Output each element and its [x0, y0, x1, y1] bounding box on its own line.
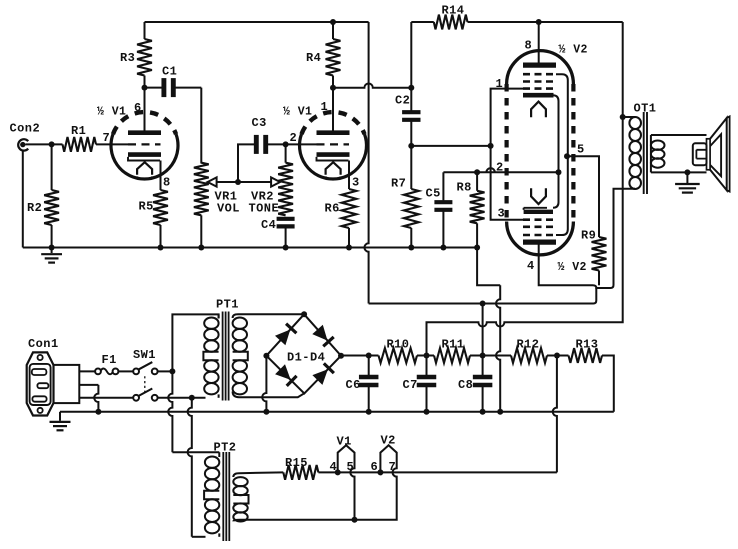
svg-text:F1: F1 [102, 353, 117, 367]
node C7 top / OT1 return [424, 353, 430, 359]
node bridge right vertex [338, 353, 344, 359]
resistor R7 [391, 177, 419, 248]
node R4 top rail junction [330, 19, 336, 25]
svg-text:1: 1 [321, 100, 329, 114]
tube V2 envelope (both halves) [507, 44, 588, 275]
svg-text:6: 6 [134, 101, 142, 115]
speaker frame [707, 139, 711, 170]
node ground R7 [408, 245, 414, 251]
svg-text:R1: R1 [71, 124, 86, 138]
wire Con2 shell to ground rail [22, 150, 24, 247]
node bridge minus ground [263, 409, 269, 415]
node ground C6 [366, 409, 372, 415]
wire R12-R13 [547, 355, 569, 357]
svg-text:5: 5 [577, 143, 585, 157]
wire F1 to SW1 [118, 370, 133, 372]
capacitor C8 [458, 356, 492, 412]
capacitor C6 [346, 356, 379, 412]
svg-text:2: 2 [290, 131, 298, 145]
svg-text:OT1: OT1 [634, 102, 657, 116]
svg-text:V1: V1 [337, 435, 352, 449]
wire R13 right to ground rail [602, 356, 614, 412]
svg-text:R8: R8 [457, 181, 472, 195]
svg-text:C2: C2 [395, 94, 410, 108]
wire V1b plate lead pin 1 [332, 88, 334, 131]
resistor R8 [457, 172, 485, 247]
node heater pin 4 [335, 469, 341, 475]
wire bridge minus to ground rail (hops secondary wire) [262, 356, 266, 412]
svg-text:3: 3 [498, 207, 506, 221]
svg-text:C8: C8 [458, 378, 473, 392]
svg-text:3: 3 [352, 176, 360, 190]
svg-text:Con2: Con2 [10, 122, 41, 136]
wire top rail left (R3/R4 supply) [145, 21, 369, 23]
svg-text:2: 2 [496, 161, 504, 175]
node heater return pin 5 [352, 517, 358, 523]
tube V2 upper half grids [523, 74, 556, 88]
transformer PT2 primary winding [204, 441, 236, 537]
resistor R12 [511, 338, 547, 363]
bridge rectifier D1-D4 [266, 314, 341, 393]
tube V2 screen hook upper [556, 74, 568, 235]
heater V2 tent pins 6,7 [355, 434, 397, 520]
node input junction (R2 top) [49, 141, 55, 147]
resistor R6 [325, 161, 357, 248]
svg-text:C7: C7 [403, 378, 418, 392]
svg-text:4: 4 [527, 259, 535, 273]
wire live down to PT2 primary top (hops neutral and ground) [168, 371, 219, 457]
wire ground staircase to PSU ground (hops lines A,B,B+) [477, 248, 500, 412]
speaker cone [710, 116, 730, 191]
svg-text:R6: R6 [325, 202, 340, 216]
svg-text:8: 8 [163, 176, 171, 190]
wire ground rail 2 (PSU) [60, 411, 614, 413]
wire B+ rail [341, 355, 379, 357]
wire C1 to VR1 top [200, 88, 202, 164]
wire speaker bottom [651, 171, 707, 173]
wire V2 pin 5 screen to R9 [567, 143, 599, 238]
wire PT2 secondary top to R15 [233, 472, 283, 477]
node ground R6 [346, 245, 352, 251]
transformer OT1 primary winding [629, 102, 656, 190]
wire SW1 live to PT1 [158, 370, 173, 372]
node bridge left vertex [263, 353, 269, 359]
wire R11-R12 (hop ground staircase) [470, 355, 511, 357]
svg-text:R14: R14 [442, 4, 465, 18]
svg-text:½ V2: ½ V2 [558, 261, 587, 274]
node C3/VR2/grid junction pin 2 [283, 131, 298, 147]
node ground R2 [49, 245, 55, 251]
wire Con1 neutral out [79, 397, 133, 399]
wire V1b plate junction to C2 top (hop over supply drop) [333, 84, 411, 88]
transformer PT2 core [223, 452, 229, 541]
wire grid feed line to V2 pins 1,3 [411, 145, 490, 147]
node line A to C8 vertical [480, 301, 486, 356]
resistor R1 [63, 124, 97, 152]
tube V2 lower half cathode [524, 208, 553, 212]
switch SW1 (DPST) [133, 348, 158, 401]
node live junction [169, 368, 175, 374]
wire supply drop from top rail to line A (hops over plate wire and ground rail) [364, 22, 368, 304]
svg-text:R2: R2 [27, 201, 42, 215]
tube V2 upper half plate (pin 8) [523, 22, 556, 65]
node heater pin 6 [377, 469, 383, 475]
svg-text:R10: R10 [387, 338, 410, 352]
svg-text:7: 7 [389, 460, 397, 474]
capacitor C5 [426, 172, 453, 247]
node ground C5 [440, 245, 446, 251]
node earth to rail [95, 409, 101, 415]
ground symbol (input) [41, 248, 62, 263]
node speaker ground junction [684, 169, 690, 175]
svg-text:R12: R12 [517, 338, 540, 352]
capacitor C1 [145, 65, 202, 98]
node wiper junction to C3 [235, 179, 241, 185]
capacitor C3 [252, 116, 286, 154]
node R8 top [474, 169, 480, 175]
wire VR1 wiper to VR2 wiper [217, 181, 272, 183]
svg-text:C1: C1 [162, 65, 177, 79]
tube V1 first half (1/2 V1) pins 6,7,8 [97, 101, 178, 190]
tube V2 upper heater [531, 102, 546, 118]
svg-text:C5: C5 [426, 187, 441, 201]
tube V2 lower half grids [523, 220, 556, 235]
transformer PT1 primary winding [203, 298, 239, 398]
wire live up to PT1 primary top [172, 314, 218, 371]
tube V2 lower half plate (pin 4) [523, 242, 556, 273]
transformer PT1 core [223, 312, 229, 401]
svg-text:PT1: PT1 [216, 298, 239, 312]
resistor R11 [434, 338, 470, 363]
transformer OT1 secondary winding [651, 135, 665, 172]
wiper arrow VR2 [271, 177, 280, 186]
wire heater elevation from R12/R13 tap (hops ground rail) [553, 356, 557, 473]
wire heater return line [247, 519, 356, 521]
ground symbol (mains earth) [50, 412, 71, 431]
svg-text:V2: V2 [381, 434, 396, 448]
svg-text:R3: R3 [120, 51, 135, 65]
node ground C4 [283, 245, 289, 251]
transformer OT1 feed wire [427, 22, 623, 356]
node ground C8 [480, 409, 486, 415]
capacitor C7 [403, 356, 437, 412]
svg-text:R9: R9 [581, 229, 596, 243]
node neutral junction [189, 395, 195, 401]
connector Con2 (input jack) [10, 122, 41, 151]
wire input from Con2 to R1 [26, 143, 63, 145]
potentiometer VR1 VOL [194, 163, 240, 248]
svg-text:TONE: TONE [249, 202, 280, 216]
node C2/grid-line junction [408, 143, 414, 149]
wire speaker top [651, 134, 707, 136]
node R4/V1b plate junction [330, 85, 336, 91]
svg-text:C3: C3 [252, 116, 267, 130]
wiper arrow VR1 [208, 177, 217, 186]
resistor R10 [379, 338, 418, 363]
wire Con1 earth to ground rail [79, 385, 98, 412]
connector Con1 (IEC mains inlet) [27, 337, 80, 416]
tube V2 cathode tie line (pin 2) [553, 95, 559, 208]
svg-text:PT2: PT2 [214, 441, 237, 455]
wire V2 pin 4 plate to OT1 bottom (jog junction with R9 and line A) [539, 189, 635, 288]
wire R1 to V1 pin 7 grid [96, 131, 128, 145]
node bridge top vertex [301, 311, 307, 317]
node C6 top [366, 353, 372, 359]
wire grid V1b pin 2 [286, 143, 317, 145]
svg-text:½ V2: ½ V2 [559, 44, 588, 57]
node grid feed to pin1/3 vertical [488, 143, 494, 149]
node R14 pin-8 junction [536, 19, 542, 25]
svg-text:½ V1: ½ V1 [97, 106, 126, 119]
svg-text:C4: C4 [261, 218, 276, 232]
svg-text:½ V1: ½ V1 [283, 106, 312, 119]
node staircase to ground rail 2 [497, 409, 503, 415]
svg-text:R13: R13 [576, 338, 599, 352]
wire V2 pins 1,3 grid tie [491, 77, 523, 221]
node C8 top [480, 353, 486, 359]
resistor R2 [27, 144, 59, 247]
svg-text:Con1: Con1 [28, 337, 59, 351]
wire C2 bottom to R7 [410, 120, 412, 189]
node ground R5 [158, 245, 164, 251]
svg-text:R11: R11 [442, 338, 465, 352]
wire V2 pin 2 cathode to R8/C5 (hops grid vertical) [443, 161, 558, 175]
resistor R14 (top feedback rail) [411, 4, 622, 30]
svg-text:6: 6 [371, 460, 379, 474]
svg-text:C6: C6 [346, 378, 361, 392]
node OT1 primary top [620, 114, 635, 120]
wire SW1 neutral to PT1 primary bottom [158, 397, 206, 399]
wire neutral down to PT2 primary bottom (hops ground rail) [188, 398, 206, 537]
heater V1 tent pins 4,5 [330, 435, 355, 520]
wire Con1 live out [79, 370, 95, 372]
resistor R15 [283, 456, 318, 480]
wire R10-R11 [417, 355, 434, 357]
potentiometer VR2 TONE [249, 144, 294, 215]
svg-text:D1-D4: D1-D4 [287, 351, 325, 365]
tube V2 upper cathode [523, 93, 554, 98]
node R3/C1/plate junction [142, 85, 148, 91]
wire V2 pin 8 from R14 rail [0, 0, 1, 1]
resistor R4 [306, 22, 340, 88]
resistor R3 [120, 22, 152, 88]
svg-text:8: 8 [525, 39, 533, 53]
tube V2 lower heater [531, 188, 546, 204]
svg-text:5: 5 [347, 460, 355, 474]
svg-text:7: 7 [103, 131, 111, 145]
resistor R9 [581, 229, 606, 286]
svg-text:R5: R5 [139, 200, 154, 214]
svg-text:R4: R4 [306, 51, 321, 65]
node C2 top junction [408, 85, 414, 91]
svg-text:R15: R15 [285, 456, 308, 470]
wire wiper up to C3 [238, 144, 256, 182]
resistor R13 [569, 338, 603, 363]
tube V1 second half (1/2 V1) pins 1,2,3 [283, 100, 367, 190]
transformer PT1 secondary winding [233, 314, 305, 397]
node R12/R13 heater tap [554, 353, 560, 359]
svg-text:SW1: SW1 [133, 348, 156, 362]
ground symbol (speaker) [675, 172, 700, 192]
transformer OT1 core [644, 112, 647, 194]
speaker magnet [693, 143, 707, 165]
wire heater line (hops tent legs) [318, 471, 557, 473]
node pin5 internal [564, 153, 570, 159]
transformer PT2 secondary winding [233, 477, 248, 522]
svg-text:VOL: VOL [217, 202, 240, 216]
resistor R5 [139, 161, 168, 248]
capacitor C4 [261, 218, 295, 248]
wire V1a plate lead pin 6 [144, 88, 146, 131]
node ground VR1 [198, 245, 204, 251]
svg-text:1: 1 [496, 77, 504, 91]
wire R14 left corner down to C2 [410, 22, 412, 111]
capacitor C2 [395, 94, 421, 120]
node ground C7 [424, 409, 430, 415]
wire main preamp ground rail [23, 247, 477, 249]
svg-text:R7: R7 [391, 177, 406, 191]
wire line A (C8 node distribution) [369, 288, 597, 304]
node ground rail corner R8 [474, 245, 480, 251]
fuse F1 [95, 353, 118, 374]
node pin2 internal [556, 169, 562, 175]
